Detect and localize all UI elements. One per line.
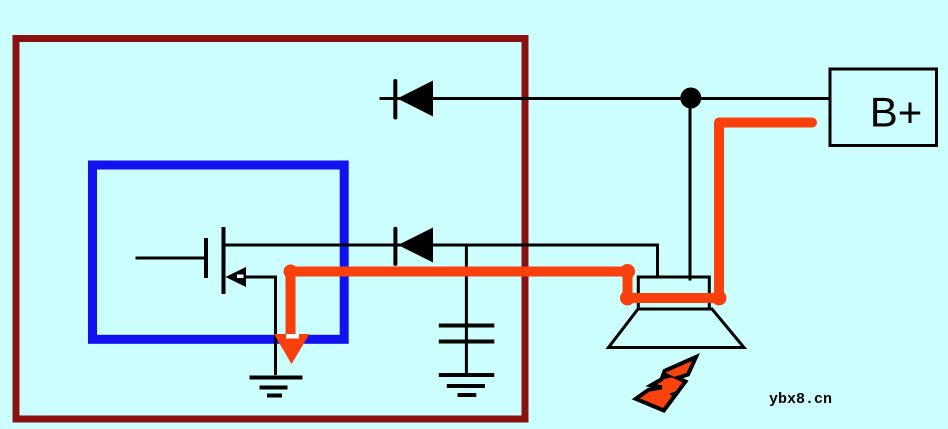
wire: junction down to speaker right terminal [689, 98, 692, 281]
diode D2 cathode bar [393, 229, 397, 264]
wire: capacitor bottom lead [465, 342, 468, 376]
MOSFET Q1 body arrow [226, 267, 247, 287]
node: junction dot at B+ feed [680, 88, 701, 109]
driver IC inner box (blue) [93, 165, 345, 339]
wire: vertical drop to speaker left terminal [656, 244, 659, 279]
capacitor C1 top plate [439, 324, 495, 328]
red current arrowhead to ground [274, 334, 310, 364]
red path joint bulge [712, 291, 727, 306]
wire: top wire from diode D1 anode to B+ box [380, 97, 831, 100]
red path joint bulge [620, 291, 635, 306]
MOSFET Q1 gate bar [204, 238, 208, 278]
MOSFET Q1 channel bar [222, 227, 226, 294]
diode D1 cathode bar [393, 81, 397, 118]
diode D2 triangle [398, 228, 433, 263]
diode D1 triangle [397, 81, 433, 117]
speaker LS1 magnet box [638, 277, 709, 309]
red path joint bulge [620, 264, 635, 279]
MOSFET Q1 body arrow white dash [237, 275, 244, 279]
wire: capacitor top lead [465, 245, 468, 341]
svg-text:ybx8.cn: ybx8.cn [769, 391, 832, 408]
svg-text:B+: B+ [870, 89, 923, 136]
wire: MOSFET source lead to ground [246, 277, 276, 375]
ground G1 under MOSFET [250, 378, 303, 396]
red arrowhead white dash [286, 334, 299, 339]
wire: MOSFET gate lead [136, 257, 207, 260]
ground G2 under capacitor [439, 375, 495, 395]
capacitor C1 bottom plate [439, 340, 495, 344]
lightning bolt [636, 357, 696, 411]
wire: drain row from MOSFET through diode D2 to speaker drop [224, 244, 658, 247]
speaker LS1 cone [609, 309, 745, 348]
red path joint bulge [284, 265, 298, 279]
red current path wire [291, 123, 813, 335]
B+ box [830, 69, 937, 146]
ECU outer box (dark red) [16, 39, 525, 420]
